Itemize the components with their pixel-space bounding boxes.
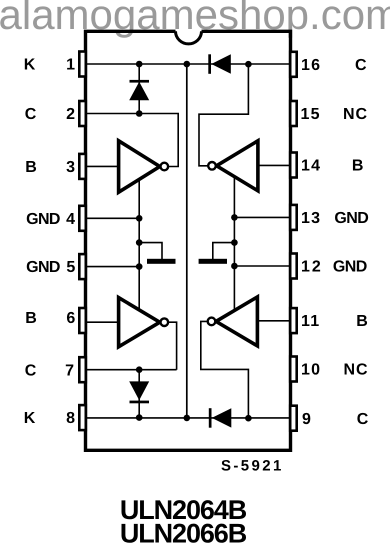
junction dot pin13/right rail <box>231 214 238 221</box>
svg-text:13: 13 <box>301 210 321 227</box>
junction dot pin8/D3 <box>136 414 143 421</box>
svg-text:GND: GND <box>333 259 367 276</box>
wire driver A3 output to pin7 row <box>168 322 177 370</box>
wire pin6 to driver A3 input <box>84 321 119 323</box>
diode D1 triangle <box>129 82 149 100</box>
pin 14 box <box>290 153 297 178</box>
junction dot pin1/center line <box>184 61 191 68</box>
wire left GND rail <box>138 180 140 312</box>
wire pin7 row <box>84 369 177 371</box>
svg-text:C: C <box>355 57 367 74</box>
svg-text:C: C <box>357 411 369 428</box>
diode D1 clamp pin2 to pin1 (cathode bar) <box>130 80 150 83</box>
junction dot pin2/D1 <box>136 110 143 117</box>
pin 16 box <box>290 52 297 77</box>
pin 3 box <box>79 154 86 179</box>
svg-text:8: 8 <box>66 410 75 427</box>
svg-text:5: 5 <box>66 259 75 276</box>
driver A1 output circle <box>161 163 169 171</box>
svg-text:NC: NC <box>343 106 368 123</box>
pin 11 box <box>290 308 297 333</box>
svg-text:1: 1 <box>66 57 75 74</box>
pin 12 box <box>290 254 297 279</box>
svg-text:11: 11 <box>301 313 320 330</box>
svg-text:K: K <box>24 410 36 427</box>
wire pin13 GND to right rail <box>234 216 291 218</box>
diode D2 clamp pin16 to pin1 cathode bar <box>208 54 211 74</box>
svg-text:9: 9 <box>302 411 311 428</box>
wire left substrate stub <box>139 243 162 260</box>
diode D3 clamp pin7 to pin8 triangle <box>129 381 149 400</box>
driver A3 output circle <box>161 318 169 326</box>
junction dot pin7/D3 <box>136 366 143 373</box>
wire pin12 GND to right rail <box>234 265 291 267</box>
junction dot pin5/left rail <box>136 263 143 270</box>
svg-text:B: B <box>352 158 364 175</box>
wire driver A4 output to pin9 node <box>201 321 249 418</box>
pin 4 box <box>79 206 86 231</box>
wire pin4 GND to left rail <box>84 217 139 219</box>
wire driver A2 output to pin16 node <box>199 64 248 166</box>
wire diode D3 stem <box>138 370 140 418</box>
svg-text:C: C <box>25 106 37 123</box>
svg-text:4: 4 <box>66 211 75 228</box>
wire pin5 GND to left rail <box>84 266 139 268</box>
pin 15 box <box>290 101 297 126</box>
svg-text:GND: GND <box>334 210 368 227</box>
svg-text:2: 2 <box>66 106 75 123</box>
junction dot pin9 node <box>245 415 252 422</box>
svg-text:14: 14 <box>301 158 321 175</box>
svg-text:6: 6 <box>66 310 75 327</box>
driver A2 triangle <box>217 141 258 191</box>
svg-text:10: 10 <box>301 362 321 379</box>
junction dot left substrate branch <box>136 239 143 246</box>
svg-text:3: 3 <box>66 159 75 176</box>
junction dot pin12/right rail <box>231 263 238 270</box>
driver A3 triangle <box>119 298 160 347</box>
wire right substrate stub <box>213 243 235 260</box>
wire pin11 to driver A4 input <box>257 320 291 322</box>
pin 9 box <box>290 406 297 431</box>
junction dot pin4/left rail <box>136 215 143 222</box>
svg-text:15: 15 <box>301 106 321 123</box>
svg-text:C: C <box>25 362 37 379</box>
pin 7 box <box>79 357 86 382</box>
pin 5 box <box>79 254 86 279</box>
pin 13 box <box>290 205 297 230</box>
diode D2 triangle <box>211 54 231 73</box>
svg-text:S-5921: S-5921 <box>221 458 284 475</box>
driver A2 output circle <box>208 162 216 170</box>
pin 8 box <box>79 405 86 430</box>
index notch <box>176 31 202 44</box>
wire pin14 to driver A2 input <box>258 164 291 166</box>
svg-text:K: K <box>24 57 36 74</box>
junction dot pin16 node <box>245 61 252 68</box>
substrate ground bar right <box>199 259 227 264</box>
substrate ground bar left <box>147 259 176 264</box>
pin 6 box <box>79 308 86 333</box>
pin 10 box <box>290 357 297 382</box>
diode D4 clamp pin9 to pin8 cathode bar <box>209 408 212 428</box>
svg-text:alamogameshop.com: alamogameshop.com <box>0 0 390 38</box>
wire pin2 to driver A1 output <box>84 114 178 167</box>
svg-text:GND: GND <box>26 211 60 228</box>
svg-text:B: B <box>356 313 368 330</box>
svg-text:7: 7 <box>65 362 74 379</box>
junction dot right substrate branch <box>231 239 238 246</box>
wire right GND rail <box>233 177 235 312</box>
IC package outline DIP-16 <box>86 31 291 450</box>
wire pin1 row to pin16 row (top K/C rail) <box>84 63 290 65</box>
svg-text:ULN2066B: ULN2066B <box>120 518 247 548</box>
driver A4 output circle <box>208 318 216 326</box>
pin 2 box <box>79 101 86 126</box>
driver A1 triangle <box>119 141 160 192</box>
junction dot pin1/D1 <box>136 61 143 68</box>
wire center K line <box>186 64 188 418</box>
svg-text:B: B <box>25 159 37 176</box>
svg-text:GND: GND <box>26 259 60 276</box>
svg-text:B: B <box>25 310 37 327</box>
driver A4 triangle <box>216 297 257 346</box>
junction dot pin8/center line <box>184 415 191 422</box>
diode D4 triangle <box>212 408 232 427</box>
wire pin3 to driver A1 input <box>84 165 119 167</box>
wire diode D1 stem <box>138 64 140 114</box>
pin 1 box <box>79 52 86 77</box>
diode D3 cathode bar <box>130 401 150 404</box>
svg-text:12: 12 <box>301 259 323 276</box>
svg-text:NC: NC <box>343 362 368 379</box>
wire pin8 row to pin9 row (bottom K/C rail) <box>84 417 290 419</box>
svg-text:16: 16 <box>301 57 321 74</box>
